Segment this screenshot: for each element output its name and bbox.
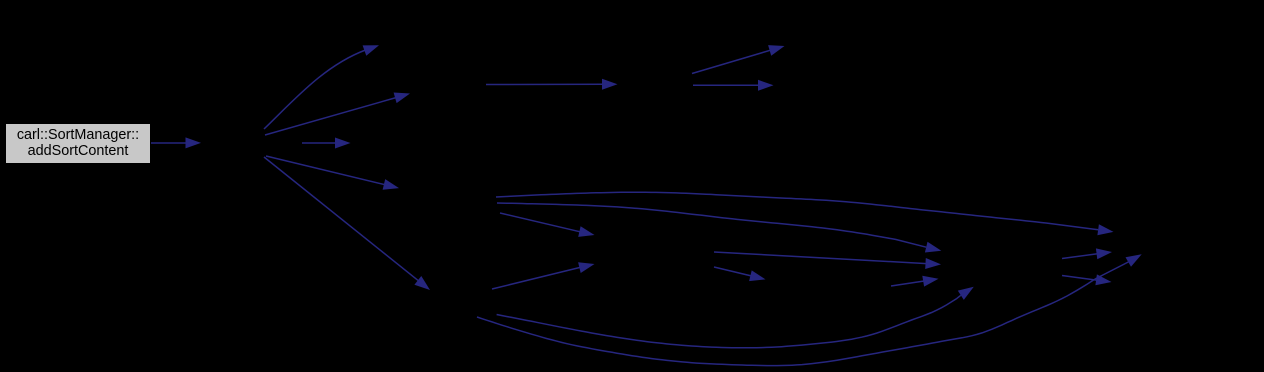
edge main->A [151, 137, 201, 148]
edge B4->E [500, 213, 595, 237]
edge B4->G [497, 203, 941, 253]
edge E->G [714, 252, 941, 269]
edge A->B5 [264, 157, 430, 290]
node main: carl::SortManager::addSortContent [6, 124, 150, 163]
edge B2->C [486, 79, 618, 90]
edge A->B4 [266, 156, 399, 190]
edge E->F [714, 267, 766, 281]
edge G->Y [1062, 248, 1112, 259]
edge A->B3 [302, 138, 351, 149]
edge F->G [891, 276, 939, 287]
edge B5->Y2 [477, 254, 1142, 365]
edge A->B2 [265, 93, 410, 136]
edge C->D2 [693, 80, 774, 91]
edge B4->Y [496, 192, 1114, 235]
edge A->B1 [264, 45, 379, 129]
edge B5->E [492, 262, 595, 289]
edge G->Z [1062, 274, 1112, 285]
edge B5->G2 [497, 287, 974, 348]
edge C->D1 [692, 45, 785, 73]
